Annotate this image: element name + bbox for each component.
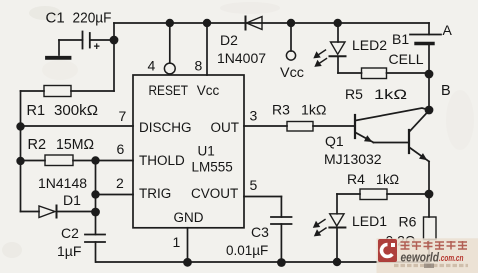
- transistor Q2: [409, 111, 429, 162]
- wire left-top vertical: [113, 23, 115, 91]
- node LED1 ground junction: [333, 258, 341, 266]
- svg-text:MJ13032: MJ13032: [324, 151, 382, 167]
- svg-text:1µF: 1µF: [57, 243, 81, 259]
- svg-text:5: 5: [250, 177, 258, 193]
- wire pin 7 DISCHG: [21, 125, 134, 127]
- svg-text:C1: C1: [46, 10, 65, 27]
- svg-text:1kΩ: 1kΩ: [376, 171, 399, 187]
- svg-text:D1: D1: [63, 192, 81, 208]
- svg-text:.com.cn: .com.cn: [439, 253, 464, 264]
- svg-text:R4: R4: [347, 171, 365, 187]
- node D1 junction: [91, 208, 100, 217]
- node Vcc rail junction: [287, 19, 295, 27]
- svg-text:DISCHG: DISCHG: [139, 120, 192, 135]
- node pin1 ground junction: [183, 258, 192, 267]
- LED1: [314, 194, 387, 262]
- svg-text:4: 4: [148, 58, 156, 74]
- node LED2 rail junction: [334, 19, 342, 27]
- node R1/pin7 junction: [16, 122, 24, 130]
- svg-text:3: 3: [250, 108, 258, 124]
- svg-text:B1: B1: [392, 31, 409, 47]
- node R2 junction: [16, 157, 24, 165]
- svg-text:300kΩ: 300kΩ: [54, 103, 98, 119]
- svg-text:U1: U1: [198, 144, 215, 159]
- svg-text:220µF: 220µF: [73, 10, 112, 27]
- svg-text:LED1: LED1: [352, 213, 387, 229]
- ground: [47, 56, 70, 60]
- svg-text:0.01µF: 0.01µF: [226, 243, 268, 258]
- wire pin 5 CVOUT: [244, 177, 281, 197]
- svg-text:1kΩ: 1kΩ: [301, 102, 327, 118]
- capacitor C3: [226, 197, 292, 263]
- svg-text:A: A: [443, 22, 453, 38]
- pin 8 Vcc wire: [195, 23, 208, 75]
- svg-text:OUT: OUT: [211, 120, 240, 135]
- capacitor C2: [57, 225, 105, 262]
- svg-text:Q1: Q1: [325, 133, 344, 149]
- node B junction: [425, 70, 451, 99]
- node C1 junction: [110, 36, 119, 45]
- svg-text:CELL: CELL: [389, 51, 424, 67]
- resistor R1: [21, 86, 115, 120]
- svg-text:15MΩ: 15MΩ: [56, 137, 94, 153]
- svg-text:R6: R6: [399, 214, 417, 230]
- battery B1 CELL: [389, 23, 442, 74]
- node TRIG junction: [91, 190, 99, 198]
- svg-text:1N4007: 1N4007: [217, 50, 266, 66]
- svg-text:1N4148: 1N4148: [38, 175, 87, 191]
- diode D2: [217, 17, 266, 67]
- resistor R4: [337, 171, 429, 200]
- Vcc terminal: [280, 23, 304, 80]
- node R4 junction: [425, 190, 434, 199]
- node collector junction: [425, 106, 434, 115]
- wire pin 1 GND: [173, 228, 188, 262]
- diode D1: [21, 175, 96, 218]
- wire C2 branch vertical: [95, 161, 97, 235]
- op-amp U1 LM555 timer: [133, 75, 244, 228]
- svg-text:GND: GND: [174, 210, 204, 225]
- svg-text:7: 7: [119, 108, 127, 124]
- wire top supply rail: [114, 22, 429, 24]
- resistor R6: [386, 194, 437, 262]
- svg-text:R5: R5: [345, 86, 363, 102]
- svg-text:+: +: [94, 41, 100, 53]
- svg-text:2: 2: [116, 175, 124, 191]
- svg-text:R1: R1: [27, 103, 46, 119]
- wire pin 2 TRIG: [96, 194, 134, 196]
- transistor Q1: [324, 108, 429, 167]
- wire emitter down: [428, 162, 430, 195]
- svg-text:Vcc: Vcc: [280, 64, 304, 80]
- pin 4 RESET with bubble: [148, 23, 176, 74]
- LED2: [314, 23, 387, 73]
- resistor R2: [21, 137, 96, 166]
- svg-text:TRIG: TRIG: [139, 186, 171, 201]
- svg-text:B: B: [441, 83, 451, 99]
- svg-text:6: 6: [117, 141, 125, 157]
- svg-text:R3: R3: [272, 102, 290, 118]
- node THOLD junction: [91, 156, 99, 164]
- capacitor C1: [46, 10, 115, 56]
- node pin8 rail junction: [203, 19, 211, 27]
- node C3 ground junction: [277, 258, 286, 267]
- wire pin 3 OUT: [244, 125, 287, 127]
- svg-text:C2: C2: [61, 225, 79, 241]
- svg-text:RESET: RESET: [149, 83, 189, 98]
- svg-text:8: 8: [195, 58, 203, 74]
- svg-text:1kΩ: 1kΩ: [374, 86, 407, 102]
- node pin4 rail junction: [166, 19, 174, 27]
- wire pin 6 THOLD: [96, 160, 134, 162]
- svg-text:D2: D2: [220, 32, 238, 48]
- svg-text:R2: R2: [28, 137, 47, 153]
- svg-text:Vcc: Vcc: [197, 83, 220, 98]
- svg-text:THOLD: THOLD: [139, 153, 185, 168]
- svg-text:1: 1: [173, 234, 181, 250]
- svg-text:LM555: LM555: [192, 160, 233, 175]
- wire B to collector: [428, 74, 430, 110]
- watermark eeworld: [377, 238, 478, 273]
- svg-text:CVOUT: CVOUT: [191, 186, 238, 201]
- svg-text:eeworld: eeworld: [401, 251, 440, 265]
- wire ground rail bottom: [96, 261, 429, 263]
- wire left vertical bus: [20, 91, 22, 212]
- resistor R5: [338, 68, 429, 102]
- resistor R3: [272, 102, 355, 132]
- svg-text:LED2: LED2: [352, 37, 387, 53]
- svg-text:C3: C3: [251, 224, 269, 240]
